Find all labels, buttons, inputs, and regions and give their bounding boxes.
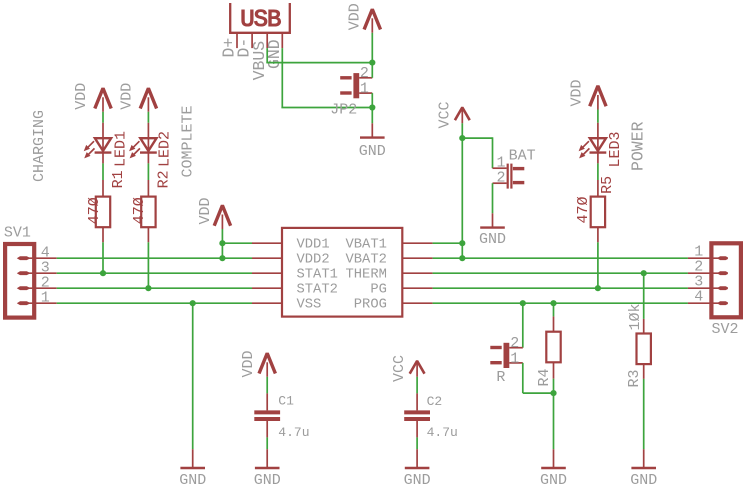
wire PROG to R.2 (522, 303, 524, 348)
svg-text:SV2: SV2 (712, 321, 739, 338)
node VDD2 junction (219, 255, 225, 261)
JP2 pin label 1 (360, 81, 369, 98)
svg-text:GND: GND (479, 231, 506, 248)
node VBAT1 junction (459, 240, 465, 246)
svg-text:R: R (496, 369, 505, 386)
wire SV1.2 to STAT2 (57, 287, 252, 289)
U1 pin name VSS (297, 298, 322, 313)
R name label (496, 369, 505, 386)
C2 bottom lead (416, 421, 418, 437)
jumper R (490, 343, 509, 368)
ground under VSS (180, 449, 205, 468)
label POWER (628, 121, 647, 171)
svg-text:VCC: VCC (437, 101, 454, 128)
svg-text:PG: PG (370, 283, 387, 298)
svg-text:VDD2: VDD2 (297, 253, 330, 268)
wire R4 down (553, 379, 555, 393)
label COMPLETE (180, 105, 197, 177)
U1 right pin VBAT2 (402, 257, 433, 259)
U1 right pin PROG (402, 302, 433, 304)
BAT pin label 1 (497, 155, 506, 172)
node R4/R junction (550, 390, 556, 396)
svg-text:VDD: VDD (568, 79, 585, 106)
U1 left pin VDD1 (252, 242, 282, 244)
wire R4 node to ground (553, 393, 555, 449)
SV2 pin 1 lead (688, 257, 722, 259)
R2 value 470 (131, 197, 148, 224)
svg-text:47Ø: 47Ø (86, 197, 103, 224)
ground label GND (C1) (254, 472, 281, 489)
R2 top lead (147, 180, 149, 197)
svg-text:4.7u: 4.7u (278, 425, 309, 440)
BAT pin 1 lead (493, 167, 507, 169)
U1 left pin VDD2 (252, 257, 282, 259)
supply VDD arrow (LED2) (140, 88, 156, 112)
wire SV1.4 to VDD2 (57, 257, 252, 259)
ground under C2 (405, 449, 430, 468)
node VSS junction (190, 300, 196, 306)
SV1 pin 1 pad (17, 301, 29, 305)
R1 top lead (102, 180, 104, 197)
wire SV1.1 to VSS (57, 302, 252, 304)
ground under R4 (541, 449, 566, 468)
svg-text:JP2: JP2 (330, 102, 357, 119)
svg-text:SV1: SV1 (4, 225, 31, 242)
svg-text:C1: C1 (278, 394, 294, 409)
wire VSS to ground (192, 303, 194, 449)
ground under C1 (255, 449, 280, 468)
node STAT1 junction (100, 270, 106, 276)
svg-text:4.7u: 4.7u (427, 425, 458, 440)
wire THERM to R3 (643, 273, 645, 319)
SV2 pin 3 pad (717, 286, 728, 290)
svg-text:STAT2: STAT2 (297, 283, 338, 298)
C1 top lead (266, 393, 268, 410)
wire VBAT2 to SV2.1 (433, 257, 688, 259)
wire R2 to STAT2 (147, 242, 149, 288)
wire R5 to PG row (597, 242, 599, 288)
ground under R3 (631, 449, 656, 468)
battery holder BAT (507, 164, 525, 189)
wire VDD to LED3 (597, 110, 599, 123)
USB pin D- (251, 34, 253, 48)
svg-text:GND: GND (404, 472, 431, 489)
JP2 pin label 2 (360, 65, 369, 82)
USB pin label VBUS (250, 41, 269, 81)
ground label GND (VSS) (179, 472, 206, 489)
R pin label 1 (510, 350, 519, 367)
C1 value 4.7u (278, 425, 309, 440)
svg-text:47Ø: 47Ø (131, 197, 148, 224)
LED2 name label (157, 131, 174, 167)
svg-text:1: 1 (41, 290, 50, 307)
svg-text:R4: R4 (536, 368, 553, 386)
svg-text:47Ø: 47Ø (575, 196, 592, 223)
LED D3 (LED3) (579, 123, 607, 164)
supply VCC arrow (BAT) (455, 107, 470, 123)
R4 bottom lead (553, 362, 555, 378)
connector J-USB body (230, 3, 290, 34)
SV2 pin 4 lead (688, 302, 722, 304)
wire THERM to SV2.2 (433, 272, 688, 274)
svg-text:THERM: THERM (345, 268, 386, 283)
SV2 pin 1 pad (717, 256, 728, 260)
svg-text:POWER: POWER (628, 121, 647, 171)
svg-text:GND: GND (630, 472, 657, 489)
supply VDD label (LED1) (73, 83, 90, 110)
label CHARGING (31, 110, 48, 182)
C2 top lead (416, 393, 418, 410)
node B junction (GND/JP2.1) (369, 104, 375, 110)
ground under JP2 (360, 123, 385, 137)
node VDD1 junction (219, 240, 225, 246)
svg-text:VDD: VDD (119, 83, 136, 110)
JP2 pin 2 lead (359, 77, 372, 79)
U1 left pin STAT2 (252, 287, 282, 289)
U1 pin name VBAT2 (345, 253, 386, 268)
svg-text:GND: GND (254, 472, 281, 489)
supply VDD arrow (C1) (259, 353, 275, 377)
wire USB-GND down (281, 48, 283, 107)
U1 right pin THERM (402, 272, 433, 274)
wire USB-GND right (281, 107, 372, 109)
wire C2 to ground (416, 437, 418, 449)
svg-text:VDD: VDD (347, 3, 364, 30)
svg-text:1: 1 (360, 81, 369, 98)
R4 name label (536, 368, 553, 386)
supply VDD arrow (IC) (214, 205, 230, 229)
svg-text:LED3: LED3 (607, 131, 624, 167)
LED1 name label (112, 131, 129, 167)
svg-text:STAT1: STAT1 (297, 268, 338, 283)
wire R.1 to R4 node (523, 392, 554, 394)
SV1 pin 3 lead (22, 272, 57, 274)
C2 name label (427, 394, 443, 409)
U1 pin name PROG (354, 298, 387, 313)
ground label GND (R4) (540, 472, 567, 489)
BAT name label (509, 148, 536, 165)
wire VDD to LED1 (102, 112, 104, 123)
supply VDD label (LED2) (119, 83, 136, 110)
svg-text:PROG: PROG (354, 298, 387, 313)
svg-text:C2: C2 (427, 394, 443, 409)
R jumper pin 1 lead (509, 362, 523, 364)
wire BAT.1 down (492, 137, 494, 168)
node A junction (VBUS/VDD/JP2.2) (369, 60, 375, 66)
U1 pin name STAT2 (297, 283, 338, 298)
SV1 pin 1 number (41, 290, 50, 307)
wire VBUS down (266, 48, 268, 63)
U1 pin name THERM (345, 268, 386, 283)
SV2 pin 3 lead (688, 287, 722, 289)
SV2 pin 3 number (694, 274, 703, 291)
USB pin label D- (235, 38, 254, 58)
USB pin label D+ (220, 38, 239, 58)
node THERM junction (641, 270, 647, 276)
svg-text:VDD: VDD (240, 350, 257, 377)
R5 value 470 (575, 196, 592, 223)
R1 name label (110, 170, 127, 188)
wire PG to SV2.3 (433, 287, 688, 289)
supply VDD label (top) (347, 3, 364, 30)
ground label GND (BAT) (479, 231, 506, 248)
R1 bottom lead (102, 227, 104, 242)
connector SV1 body (5, 244, 34, 318)
SV2 pin 2 lead (688, 272, 722, 274)
SV1 pin 3 number (41, 260, 50, 277)
C1 name label (278, 394, 294, 409)
U1 pin name VDD1 (297, 238, 330, 253)
node VBAT2 junction (459, 255, 465, 261)
supply VDD label (LED3) (568, 79, 585, 106)
SV1 pin 2 pad (17, 286, 29, 290)
wire LED1 to R1 (102, 163, 104, 180)
U1 pin name STAT1 (297, 268, 338, 283)
svg-text:GND: GND (359, 143, 386, 160)
wire BAT.2 down (492, 183, 494, 213)
R2 name label (155, 170, 172, 188)
U1 pin name VDD2 (297, 253, 330, 268)
svg-text:4: 4 (694, 289, 703, 306)
SV1 pin 1 lead (22, 302, 57, 304)
supply VCC arrow (C2) (410, 361, 425, 377)
wire VBAT1 to VCC node (433, 242, 463, 244)
wire R1 to STAT1 (102, 242, 104, 273)
U1 right pin VBAT1 (402, 242, 433, 244)
SV2 pin 2 number (694, 259, 703, 276)
connector SV2 body (711, 243, 741, 317)
supply VDD arrow (LED3) (590, 86, 606, 110)
R pin label 2 (510, 335, 519, 352)
svg-text:1Øk: 1Øk (627, 303, 644, 330)
resistor R1 (96, 197, 110, 228)
U1 right pin PG (402, 287, 433, 289)
SV1 pin 3 pad (17, 271, 29, 275)
LED D1 (LED1) (84, 123, 112, 164)
R5 name label (599, 176, 616, 194)
R1 value 470 (86, 197, 103, 224)
LED D2 (LED2) (129, 123, 157, 164)
svg-text:GND: GND (179, 472, 206, 489)
USB pin GND (281, 34, 283, 48)
wire PROG to R4 (553, 303, 555, 316)
R3 value 10k (627, 303, 644, 330)
node PROG junction 1 (520, 300, 526, 306)
JP2 name label (330, 102, 357, 119)
SV1 pin 2 lead (22, 287, 57, 289)
SV2 pin 1 number (694, 244, 703, 261)
SV1 pin 2 number (41, 275, 50, 292)
BAT pin 2 lead (493, 182, 507, 184)
svg-text:VCC: VCC (391, 355, 408, 382)
wire VCC to C2 (416, 377, 418, 394)
node PG junction (595, 285, 601, 291)
node VCC junction (459, 135, 465, 141)
capacitor C2 (404, 412, 430, 419)
svg-text:2: 2 (497, 170, 506, 187)
supply VCC label (BAT) (437, 101, 454, 128)
svg-text:R3: R3 (626, 369, 643, 387)
resistor R2 (141, 197, 155, 228)
R5 bottom lead (597, 227, 599, 242)
R2 bottom lead (147, 227, 149, 242)
svg-text:VDD: VDD (197, 197, 214, 224)
SV2 pin 4 number (694, 289, 703, 306)
wire LED2 to R2 (147, 163, 149, 180)
ground label GND (C2) (404, 472, 431, 489)
wire C1 to ground (266, 437, 268, 449)
JP2 pin 1 lead (359, 92, 372, 94)
C2 value 4.7u (427, 425, 458, 440)
supply VDD label (C1) (240, 350, 257, 377)
resistor R3 (637, 334, 651, 365)
svg-text:R1: R1 (110, 170, 127, 188)
wire JP2.1 down (371, 93, 373, 107)
svg-text:USB: USB (240, 7, 281, 34)
svg-text:1: 1 (510, 350, 519, 367)
svg-text:GND: GND (540, 472, 567, 489)
R3 name label (626, 369, 643, 387)
wire PROG to SV2.4 (433, 302, 688, 304)
R4 top lead (553, 316, 555, 331)
wire VDD to VDD1 pin (222, 242, 252, 244)
node PROG junction 2 (550, 300, 556, 306)
U1 left pin STAT1 (252, 272, 282, 274)
resistor R5 (591, 197, 605, 228)
R3 top lead (643, 319, 645, 334)
wire R.1 down (522, 363, 524, 393)
wire VDD to node A (371, 33, 373, 63)
supply VCC label (C2) (391, 355, 408, 382)
U1 left pin VSS (252, 302, 282, 304)
USB pin VBUS (266, 34, 268, 48)
svg-text:CHARGING: CHARGING (31, 110, 48, 182)
jumper JP2 (340, 73, 359, 98)
LED3 name label (607, 131, 624, 167)
BAT pin label 2 (497, 170, 506, 187)
svg-text:VBAT1: VBAT1 (345, 238, 386, 253)
supply VDD arrow (LED1) (95, 88, 111, 112)
U1 pin name VBAT1 (345, 238, 386, 253)
wire VDD to LED2 (147, 112, 149, 123)
SV2 name label (712, 321, 739, 338)
U1 pin name PG (370, 283, 387, 298)
capacitor C1 (254, 412, 280, 419)
R5 top lead (597, 180, 599, 197)
ground under BAT (480, 213, 505, 227)
svg-text:BAT: BAT (509, 148, 536, 165)
wire VCC to BAT.1 h (462, 137, 492, 139)
supply VDD arrow (top) (364, 9, 380, 33)
svg-text:VDD: VDD (73, 83, 90, 110)
resistor R4 (546, 332, 560, 363)
svg-text:VSS: VSS (297, 298, 322, 313)
SV1 pin 4 number (41, 245, 50, 262)
svg-text:R5: R5 (599, 176, 616, 194)
USB pin label GND (265, 39, 284, 69)
wire VCC down (461, 123, 463, 258)
svg-text:LED2: LED2 (157, 131, 174, 167)
ground label GND (R3) (630, 472, 657, 489)
svg-text:COMPLETE: COMPLETE (180, 105, 197, 177)
wire node B to ground (371, 108, 373, 124)
wire SV1.3 to STAT1 (57, 272, 252, 274)
wire VDD to C1 (266, 377, 268, 394)
SV1 pin 4 pad (17, 256, 29, 260)
wire VDD-IC down (221, 229, 223, 258)
supply VDD label (IC) (197, 197, 214, 224)
R jumper pin 2 lead (509, 347, 523, 349)
ground label GND (JP2) (359, 143, 386, 160)
op-amp U1 body (charger IC) (282, 228, 402, 317)
USB pin D+ (236, 34, 238, 48)
svg-text:R2: R2 (155, 170, 172, 188)
R3 bottom lead (643, 364, 645, 379)
SV1 name label (4, 225, 31, 242)
svg-text:LED1: LED1 (112, 131, 129, 167)
node STAT2 junction (145, 285, 151, 291)
SV2 pin 2 pad (717, 271, 728, 275)
SV1 pin 4 lead (22, 257, 57, 259)
svg-text:VBAT2: VBAT2 (345, 253, 386, 268)
wire R3 to ground (643, 379, 645, 449)
SV2 pin 4 pad (717, 301, 728, 305)
wire LED3 to R5 (597, 163, 599, 180)
wire JP2.2 up (371, 63, 373, 78)
svg-text:VDD1: VDD1 (297, 238, 330, 253)
C1 bottom lead (266, 421, 268, 437)
wire VBUS right (266, 62, 372, 64)
